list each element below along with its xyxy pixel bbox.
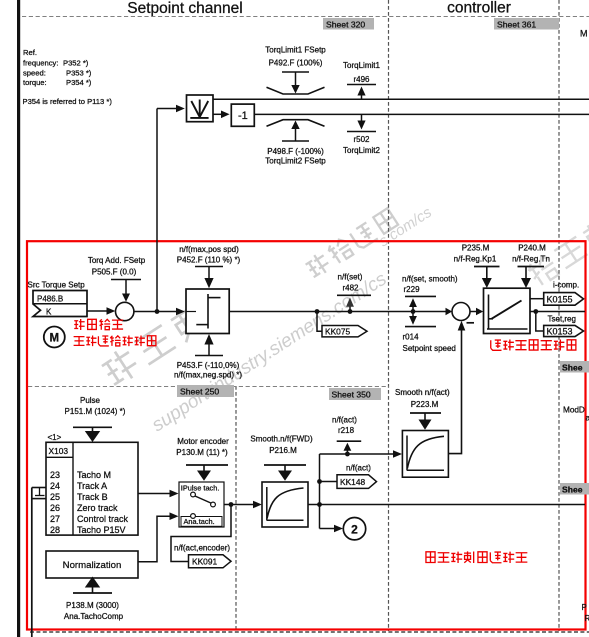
junction node x317 (315, 309, 320, 314)
svg-text:Tacho P15V: Tacho P15V (77, 525, 126, 535)
sheet 320 tag (323, 18, 374, 30)
svg-text:n/f(set, smooth): n/f(set, smooth) (402, 275, 458, 284)
P452 parameter arrow (195, 267, 223, 289)
dashed divider vertical x559 (558, 0, 560, 631)
switch block encoder select (179, 482, 224, 527)
sheet 361 tag (494, 18, 559, 30)
svg-text:IPulse tach.: IPulse tach. (181, 484, 220, 493)
svg-text:TorqLimit2: TorqLimit2 (343, 146, 380, 155)
svg-text:r218: r218 (338, 426, 355, 435)
svg-text:TorqLimit1 FSetp: TorqLimit1 FSetp (265, 46, 326, 55)
svg-text:P352 *): P352 *) (63, 59, 89, 68)
wire P216 output main (308, 504, 585, 506)
sheet 350 tag (329, 388, 381, 400)
P138 parameter arrow (73, 577, 112, 594)
upper limit symbol (267, 87, 325, 94)
svg-text:n/f-Reg.Tn: n/f-Reg.Tn (512, 255, 550, 264)
red annotation box (27, 241, 586, 629)
limiter block (186, 289, 229, 334)
svg-text:n/f(max,neg.spd) *): n/f(max,neg.spd) *) (174, 371, 242, 380)
wire normalization to switch (138, 512, 179, 561)
svg-text:Smooth.n/f(FWD): Smooth.n/f(FWD) (250, 435, 313, 444)
junction node x319 y481 (317, 479, 322, 484)
connector KK075 (317, 312, 367, 337)
svg-text:Pulse: Pulse (80, 396, 101, 405)
svg-text:n/f(act): n/f(act) (346, 464, 371, 473)
label Smooth n/f act (395, 388, 450, 409)
svg-text:23: 23 (50, 470, 60, 480)
label <1> (48, 433, 62, 442)
P453 parameter arrow (195, 334, 223, 356)
svg-text:Sheet 350: Sheet 350 (332, 390, 371, 400)
P130 parameter arrow (186, 465, 228, 481)
dashed divider vertical x388 (388, 0, 390, 631)
svg-text:Smooth n/f(act): Smooth n/f(act) (395, 388, 450, 397)
PI controller block (484, 288, 531, 333)
svg-text:r482: r482 (342, 284, 359, 293)
monitor r496 (343, 61, 380, 99)
svg-text:P452.F (110 %) *): P452.F (110 %) *) (177, 256, 241, 265)
svg-text:P130.M (11) *): P130.M (11) *) (176, 448, 228, 457)
label P240.M (512, 244, 550, 264)
svg-text:P354 *): P354 *) (66, 78, 92, 87)
label M top right (580, 29, 588, 39)
wire PI main output (530, 311, 585, 313)
wire limiter to summer2 (229, 308, 452, 316)
wire to K0153 (536, 312, 544, 332)
watermark band 3 (148, 268, 391, 436)
title controller (447, 0, 511, 17)
svg-text:P: P (582, 603, 587, 612)
label P bottom right (582, 603, 589, 623)
bottom frame dashed line (30, 631, 589, 633)
svg-text:Track B: Track B (77, 492, 108, 502)
dashed divider vertical x236 lower section (235, 386, 237, 631)
P240 parameter arrow (518, 267, 545, 289)
wire to KK148 (320, 481, 338, 483)
wire branch to P223 (320, 450, 403, 458)
svg-text:K0155: K0155 (547, 295, 573, 305)
label TorqLimit1 FSetp (265, 46, 326, 68)
wire PI to K0155 (530, 298, 544, 300)
svg-text:<1>: <1> (48, 433, 62, 442)
svg-text:P453.F (-110,0%): P453.F (-110,0%) (177, 361, 240, 370)
summer S1 (116, 302, 134, 320)
lower limit symbol (267, 120, 325, 127)
minimum block U1 (187, 95, 214, 122)
ref legend text (23, 48, 92, 87)
label P498 (265, 147, 326, 166)
label ModD right (563, 406, 589, 423)
svg-text:P498.F (-100%): P498.F (-100%) (267, 147, 324, 156)
tacho input symbol (32, 488, 46, 499)
red note torque give line1 (74, 319, 123, 330)
svg-text:Setpoint channel: Setpoint channel (127, 0, 242, 17)
label i-comp (553, 281, 579, 290)
title Setpoint channel (127, 0, 242, 17)
svg-text:n/f(act,encoder): n/f(act,encoder) (174, 544, 230, 553)
terminal block X103 (46, 442, 138, 535)
svg-text:P492.F (100%): P492.F (100%) (269, 59, 323, 68)
svg-text:P235.M: P235.M (462, 244, 490, 253)
svg-text:Track A: Track A (77, 481, 107, 491)
svg-text:Motor encoder: Motor encoder (177, 437, 229, 446)
svg-text:28: 28 (50, 525, 60, 535)
P216 parameter arrow (264, 465, 306, 481)
svg-text:n/f(max,pos spd): n/f(max,pos spd) (179, 245, 239, 254)
wire summer to limiter (134, 308, 185, 316)
svg-text:TorqLimit1: TorqLimit1 (343, 61, 380, 70)
wire flag to summer (87, 307, 115, 315)
svg-text:Shee: Shee (562, 484, 583, 494)
svg-text:P138.M (3000): P138.M (3000) (66, 601, 119, 610)
connector K0153 (544, 325, 584, 336)
svg-text:n/f(act): n/f(act) (332, 416, 357, 425)
svg-text:controller: controller (447, 0, 511, 17)
P492 parameter arrow (282, 72, 309, 94)
label P453 (174, 361, 242, 380)
svg-text:P223.M: P223.M (411, 400, 439, 409)
smoothing block P216 (262, 482, 308, 527)
dashed divider horizontal top (22, 16, 589, 18)
page border left (17, 0, 20, 637)
junction node x347 (345, 452, 350, 457)
svg-text:P151.M (1024) *): P151.M (1024) *) (65, 407, 126, 416)
offpage circle 2 (343, 518, 365, 540)
watermark band 3b (376, 204, 435, 251)
svg-text:Setpoint speed: Setpoint speed (403, 344, 456, 353)
svg-text:P353 *): P353 *) (66, 69, 92, 78)
dashed divider horizontal y386 (28, 386, 389, 388)
junction node x157 (155, 309, 160, 314)
svg-text:Src Torque Setp: Src Torque Setp (28, 281, 86, 290)
P235 parameter arrow (474, 267, 500, 289)
svg-text:M: M (50, 333, 60, 345)
svg-text:Tacho M: Tacho M (77, 470, 111, 480)
junction node x319 (317, 502, 322, 507)
svg-text:P240.M: P240.M (518, 244, 546, 253)
wire into minimum block (157, 105, 185, 113)
svg-text:24: 24 (50, 481, 60, 491)
red note torque give line2 (74, 336, 156, 347)
terminal pin numbers (50, 470, 60, 535)
svg-text:Sheet 320: Sheet 320 (326, 19, 365, 29)
normalization block (46, 551, 138, 578)
label P235.M (454, 244, 497, 264)
svg-text:26: 26 (50, 503, 60, 513)
monitor r218 (332, 416, 361, 455)
wire minimum to -1 (213, 111, 230, 119)
wire branch to tag2 (320, 525, 344, 533)
svg-text:Zero track: Zero track (77, 503, 118, 513)
red note closed loop (426, 551, 527, 563)
wire tacho offpage (31, 488, 33, 637)
junction node x231 (229, 502, 234, 507)
svg-text:Sheet 250: Sheet 250 (180, 387, 219, 397)
svg-text:Control track: Control track (77, 514, 129, 524)
label n/f act kk148 (346, 464, 371, 473)
watermark band 2 (304, 208, 399, 280)
svg-text:r502: r502 (353, 135, 370, 144)
svg-text:r014: r014 (403, 333, 420, 342)
sheet tag right bottom (560, 483, 589, 495)
inverter block -1 (231, 104, 254, 126)
svg-text:Ref.: Ref. (23, 48, 37, 57)
sheet tag right top (560, 361, 589, 373)
svg-text:P505.F (0.0): P505.F (0.0) (92, 268, 137, 277)
label Smooth FWD (250, 435, 313, 456)
red note speed loop torque (491, 340, 576, 351)
wire vertical feed x157 (156, 109, 158, 312)
monitor r482 (337, 273, 371, 312)
label Motor encoder (176, 437, 229, 457)
smoothing block P223 (402, 431, 448, 478)
svg-text:support.industry.siemens.com/c: support.industry.siemens.com/cs (148, 268, 391, 436)
wire X103 to switch (138, 490, 179, 498)
junction node x536 (533, 309, 538, 314)
svg-text:-1: -1 (238, 110, 248, 122)
watermark band 4 (526, 218, 589, 288)
svg-text:ModD: ModD (563, 406, 585, 415)
P498 parameter arrow (282, 121, 309, 142)
svg-text:torque:: torque: (23, 78, 47, 87)
svg-text:r496: r496 (353, 75, 370, 84)
P151 parameter arrow (73, 427, 112, 442)
svg-text:2: 2 (351, 523, 358, 537)
svg-text:a: a (586, 414, 589, 423)
svg-text:Ana.TachoComp: Ana.TachoComp (64, 612, 124, 621)
monitor r229 r014 (402, 275, 458, 354)
svg-text:Shee: Shee (562, 362, 583, 372)
connector KK148 (337, 475, 377, 489)
svg-text:Sheet 361: Sheet 361 (497, 19, 536, 29)
svg-text:P354 is referred to P113 *): P354 is referred to P113 *) (23, 97, 113, 106)
junction node x350 (348, 309, 353, 314)
svg-text:KK091: KK091 (192, 557, 217, 567)
label n/f max pos (177, 245, 241, 265)
wire to KK091 (171, 505, 231, 562)
terminal pin labels (77, 470, 129, 535)
svg-text:P216.M: P216.M (269, 446, 297, 455)
svg-text:P486.B: P486.B (37, 294, 63, 303)
P223 parameter arrow (410, 413, 441, 430)
svg-text:Ana.tach.: Ana.tach. (184, 517, 215, 526)
wire switch to smoother (224, 501, 262, 509)
label Src Torque Setp (28, 281, 86, 290)
summer S2 speed (452, 303, 474, 323)
connector K0155 (544, 293, 584, 306)
svg-text:K: K (46, 307, 52, 316)
watermark band 1 (99, 302, 208, 389)
svg-text:K0153: K0153 (547, 327, 573, 337)
main torque line 1 (213, 98, 589, 100)
svg-text:KK075: KK075 (325, 327, 350, 337)
svg-text:speed:: speed: (23, 69, 46, 78)
svg-text:frequency:: frequency: (23, 59, 58, 68)
svg-text:R: R (585, 614, 589, 623)
label Tset reg (548, 314, 576, 323)
wire branch vertical x319 (319, 454, 321, 529)
label Torq Add FSetp (88, 256, 146, 277)
svg-text:KK148: KK148 (340, 477, 365, 487)
svg-text:n/f(set): n/f(set) (338, 273, 363, 282)
connector KK091 (189, 555, 232, 568)
label P138 (64, 601, 124, 621)
svg-text:Torq Add. FSetp: Torq Add. FSetp (88, 256, 146, 265)
note P354 (23, 97, 113, 106)
wire summer2 to PI (470, 308, 483, 316)
svg-text:Tset,reg: Tset,reg (548, 314, 576, 323)
monitor r502 (343, 114, 380, 155)
wire P223 feedback up (448, 321, 465, 454)
label n/f act encoder (174, 544, 230, 553)
connector flag P486.B (33, 291, 87, 317)
label Pulse P151 (65, 396, 126, 416)
svg-text:25: 25 (50, 492, 60, 502)
svg-text:X103: X103 (49, 446, 69, 456)
svg-text:i-comp.: i-comp. (553, 281, 579, 290)
motor symbol M (44, 327, 65, 348)
junction node x413 (411, 309, 416, 314)
P505 parameter arrow (111, 280, 141, 302)
main torque line 2 (254, 113, 589, 115)
svg-text:M: M (580, 29, 588, 39)
sheet 250 tag (177, 385, 234, 397)
svg-text:27: 27 (50, 514, 60, 524)
svg-text:r229: r229 (404, 285, 421, 294)
svg-text:TorqLimit2 FSetp: TorqLimit2 FSetp (265, 157, 326, 166)
svg-text:Normalization: Normalization (63, 560, 122, 571)
svg-text:n/f-Reg.Kp1: n/f-Reg.Kp1 (454, 255, 497, 264)
